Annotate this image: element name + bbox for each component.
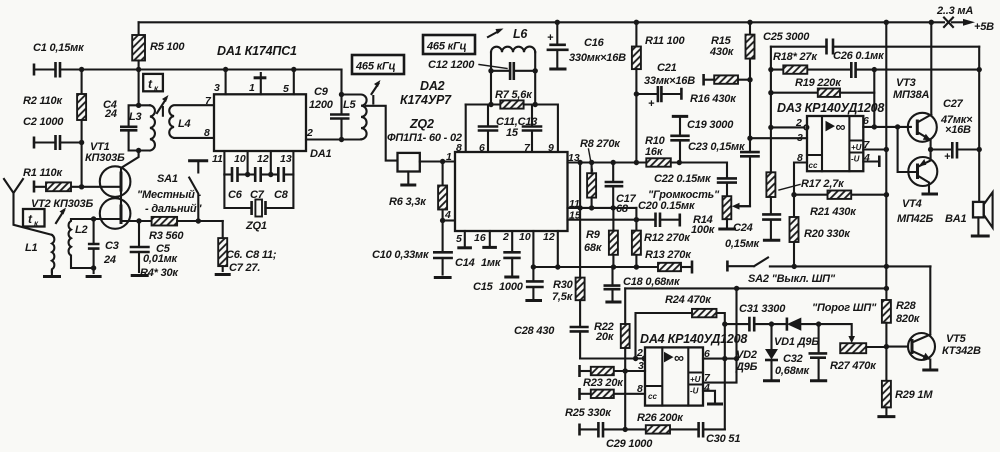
resistor R2 <box>77 94 86 120</box>
IC DA2 <box>455 152 568 231</box>
resistor R18 <box>768 67 773 72</box>
svg-text:465 кГц: 465 кГц <box>426 41 467 53</box>
capacitor C6 <box>224 173 232 175</box>
pin 8 stub DA2 <box>465 105 467 153</box>
resistor R22 <box>621 324 630 348</box>
potentiometer R14 <box>723 196 732 219</box>
svg-text:L2: L2 <box>75 224 88 236</box>
capacitor C4 <box>120 127 137 131</box>
svg-text:R13 270к: R13 270к <box>645 249 692 261</box>
wire bottom rail <box>533 266 658 268</box>
svg-text:C9: C9 <box>314 86 329 98</box>
svg-text:4: 4 <box>703 382 710 394</box>
svg-text:16к: 16к <box>645 146 664 158</box>
svg-text:-U: -U <box>690 387 699 396</box>
svg-text:15: 15 <box>506 127 519 139</box>
svg-text:100к: 100к <box>691 224 716 236</box>
svg-text:13: 13 <box>280 153 292 165</box>
capacitor C12 <box>510 62 514 80</box>
tank L6 with C12 <box>491 52 535 71</box>
svg-text:C6. C8 11;: C6. C8 11; <box>226 249 277 261</box>
svg-text:68к: 68к <box>584 242 603 254</box>
svg-text:C10 0,33мк: C10 0,33мк <box>372 249 430 261</box>
DA1 bottom pin stubs 11 10 12 13 <box>224 151 293 175</box>
svg-text:24: 24 <box>103 254 116 266</box>
svg-text:R20 330к: R20 330к <box>804 228 851 240</box>
svg-text:cc: cc <box>809 161 818 170</box>
capacitor C7 <box>245 172 250 177</box>
svg-text:R25 330к: R25 330к <box>565 407 612 419</box>
DA2 pin 12 <box>557 231 559 267</box>
pointer C12 <box>479 65 507 69</box>
svg-text:VT3: VT3 <box>896 77 916 89</box>
svg-text:C32: C32 <box>783 353 803 365</box>
wire input rail y69.5 <box>34 68 342 70</box>
svg-text:К174УР7: К174УР7 <box>400 93 452 107</box>
svg-text:C8: C8 <box>274 189 289 201</box>
tank L3 with C4 <box>129 105 150 150</box>
capacitor C19 <box>672 115 688 118</box>
svg-text:L5: L5 <box>343 99 357 111</box>
switch SA1 <box>196 218 201 223</box>
resistor R7 <box>500 100 523 108</box>
svg-text:∞: ∞ <box>836 119 846 135</box>
wire to R1 <box>81 143 83 187</box>
ground DA4 pin4 <box>703 391 715 403</box>
resistor R6 <box>442 162 444 186</box>
wire DA3 pin6 <box>863 126 911 128</box>
svg-text:C14: C14 <box>455 257 475 269</box>
svg-text:C24: C24 <box>733 222 753 234</box>
svg-text:R8 270к: R8 270к <box>580 138 621 150</box>
capacitor C26 <box>851 62 855 78</box>
svg-text:8: 8 <box>797 152 803 164</box>
wire ZQ2 out <box>420 160 455 162</box>
resistor R10 <box>646 158 671 166</box>
IC DA4 <box>645 347 703 405</box>
IC DA3 <box>807 116 863 171</box>
svg-text:8: 8 <box>637 383 643 395</box>
svg-text:R27 470к: R27 470к <box>830 360 877 372</box>
svg-text:C28 430: C28 430 <box>514 325 555 337</box>
svg-text:КТ342В: КТ342В <box>942 345 981 357</box>
svg-text:C29 1000: C29 1000 <box>606 438 653 450</box>
svg-text:VT5: VT5 <box>946 333 967 345</box>
fk box 1 <box>143 74 163 91</box>
svg-text:КП303Б: КП303Б <box>85 152 125 164</box>
wire feedback to pin6 <box>873 70 875 93</box>
wire gate VT1 <box>82 186 119 188</box>
svg-text:R17 2,7к: R17 2,7к <box>801 178 845 190</box>
capacitor C27 electrolytic <box>952 142 957 159</box>
wire L6 tank to R7 line <box>491 71 535 105</box>
wire L3 feed <box>138 70 140 106</box>
node VT5 base <box>884 344 889 349</box>
capacitor C22 <box>717 178 737 182</box>
wire DA2 pin15 line <box>568 219 656 221</box>
pointer R17 <box>779 185 800 191</box>
capacitor C1 <box>56 62 61 78</box>
wire DA3 pin3 <box>750 137 807 139</box>
svg-text:VD2: VD2 <box>736 349 757 361</box>
svg-text:L4: L4 <box>178 118 191 130</box>
inductor L1 <box>52 235 54 272</box>
svg-text:R19 220к: R19 220к <box>795 77 842 89</box>
svg-text:C31 3300: C31 3300 <box>739 303 786 315</box>
svg-text:C2 1000: C2 1000 <box>23 116 64 128</box>
svg-text:R26 200к: R26 200к <box>637 412 684 424</box>
svg-text:820к: 820к <box>896 313 921 325</box>
svg-text:-U: -U <box>851 155 860 164</box>
antenna <box>4 179 52 235</box>
pin 1 common <box>260 73 262 94</box>
resistor R13 <box>658 263 681 271</box>
svg-text:1мк: 1мк <box>481 257 502 269</box>
resistor R11 <box>634 20 639 25</box>
node output <box>928 147 933 152</box>
wire DA2 pin13 line <box>568 163 728 179</box>
svg-text:4: 4 <box>863 152 870 164</box>
svg-text:33мк×16В: 33мк×16В <box>644 75 695 87</box>
svg-text:R12 270к: R12 270к <box>644 232 691 244</box>
capacitor C20 <box>656 213 680 228</box>
svg-text:C27: C27 <box>943 98 964 110</box>
capacitor C31 <box>722 321 727 326</box>
fk box 2 <box>23 209 45 227</box>
capacitor C9 <box>340 70 342 140</box>
resistor R29 <box>885 347 887 381</box>
svg-text:Д9Б: Д9Б <box>735 361 758 373</box>
transistor VT5 <box>908 333 935 360</box>
capacitor C29 <box>598 422 603 438</box>
wire feedback column x771 <box>770 47 772 128</box>
svg-text:R7 5,6к: R7 5,6к <box>495 89 533 101</box>
svg-text:2: 2 <box>795 117 802 129</box>
resistor R5 <box>138 22 140 35</box>
svg-text:3: 3 <box>797 132 803 144</box>
svg-text:ФП1П1- 60 - 02: ФП1П1- 60 - 02 <box>387 132 462 144</box>
input circle pin2 DA4 <box>643 356 648 361</box>
wire DA4 pin3 <box>614 370 645 372</box>
resistor R24 <box>636 313 725 429</box>
svg-text:C12 1200: C12 1200 <box>428 59 475 71</box>
svg-text:+: + <box>547 32 554 44</box>
svg-text:- дальний": - дальний" <box>145 203 202 215</box>
svg-text:C16: C16 <box>584 37 605 49</box>
svg-text:1200: 1200 <box>309 99 334 111</box>
svg-text:4: 4 <box>444 209 451 221</box>
capacitor C17 <box>612 163 614 208</box>
svg-text:R29 1М: R29 1М <box>895 389 933 401</box>
node R1 <box>79 184 84 189</box>
terminal DA3 pin4 <box>863 160 879 162</box>
svg-text:+: + <box>944 151 951 163</box>
tuning arrow L5 <box>372 84 379 104</box>
filter ZQ2 <box>398 153 420 172</box>
pin 5 <box>291 67 296 72</box>
svg-text:C22 0.15мк: C22 0.15мк <box>654 173 712 185</box>
capacitor C25 <box>771 46 979 48</box>
svg-text:6: 6 <box>863 115 869 127</box>
capacitor C30 <box>699 422 704 438</box>
svg-text:2: 2 <box>502 231 509 243</box>
pointer R8 <box>589 149 593 171</box>
svg-text:0,68мк: 0,68мк <box>775 365 811 377</box>
inductor L3 coil <box>150 105 155 150</box>
transistor VT1 <box>100 166 131 197</box>
svg-text:cc: cc <box>648 392 657 401</box>
inductor L5 <box>342 95 367 140</box>
inductor L4 <box>169 105 214 138</box>
svg-text:68: 68 <box>616 203 629 215</box>
wire R7 line <box>466 105 558 153</box>
svg-text:VD1 Д9Б: VD1 Д9Б <box>774 336 819 348</box>
svg-text:R28: R28 <box>896 300 917 312</box>
capacitor C5 <box>136 218 141 223</box>
resistor R1 <box>33 181 36 193</box>
svg-text:R21 430к: R21 430к <box>810 206 857 218</box>
ground L1 <box>43 275 61 278</box>
svg-text:24: 24 <box>104 108 117 120</box>
svg-text:20к: 20к <box>595 331 615 343</box>
wire right edge column <box>978 47 980 202</box>
svg-text:C20 0.15мк: C20 0.15мк <box>638 200 696 212</box>
svg-text:R6 3,3к: R6 3,3к <box>389 196 427 208</box>
svg-text:8: 8 <box>204 127 210 139</box>
ammeter break symbol <box>944 18 953 28</box>
resistor R16 <box>702 74 705 86</box>
node L5 top <box>339 92 344 97</box>
svg-text:DA2: DA2 <box>420 79 445 93</box>
pin 2 wire <box>306 138 361 140</box>
svg-text:2: 2 <box>636 347 643 359</box>
pin 4 wire DA2 <box>443 219 455 221</box>
capacitor C11 <box>487 105 489 153</box>
wire to DA4 pin 2 <box>580 357 643 359</box>
capacitor C16 electrolytic <box>556 22 558 44</box>
capacitor C8 <box>268 172 273 177</box>
DA2 bottom pin 5 <box>464 231 466 246</box>
wire DA3 pin7 <box>863 148 886 150</box>
svg-text:465 кГц: 465 кГц <box>355 61 396 73</box>
capacitor C28 <box>579 300 581 358</box>
svg-text:R9: R9 <box>586 229 601 241</box>
svg-text:2: 2 <box>306 127 313 139</box>
resistor R28 <box>885 288 887 300</box>
wire squelch line <box>625 287 886 289</box>
resistor R12 <box>635 208 637 267</box>
svg-text:R23 20к: R23 20к <box>583 377 624 389</box>
capacitor C23 <box>747 136 752 141</box>
svg-text:12: 12 <box>257 153 269 165</box>
svg-text:5: 5 <box>456 233 462 245</box>
svg-text:0,15мк: 0,15мк <box>725 238 761 250</box>
svg-text:∞: ∞ <box>674 350 684 366</box>
svg-text:"Местный -: "Местный - <box>137 189 202 201</box>
node C1/R2 <box>79 67 84 72</box>
svg-text:10: 10 <box>519 231 531 243</box>
svg-text:11: 11 <box>212 153 223 165</box>
transistor VT3 <box>908 113 937 142</box>
arrow to +5V <box>963 19 975 26</box>
svg-text:R30: R30 <box>553 279 574 291</box>
svg-text:SA2 "Выкл. ШП": SA2 "Выкл. ШП" <box>748 273 836 285</box>
inductor L2 <box>69 219 94 268</box>
potentiometer R27 <box>840 343 866 353</box>
svg-text:430к: 430к <box>709 46 735 58</box>
box 465 kHz left <box>352 55 404 74</box>
tuning arrow L2 <box>56 211 64 224</box>
tuning arrow L6 <box>488 31 499 37</box>
transistor VT2 <box>100 198 131 229</box>
resistor R9 <box>612 208 614 267</box>
pin 3 <box>223 67 228 72</box>
node C2 <box>79 140 84 145</box>
box 465 kHz right <box>423 35 475 54</box>
svg-text:1: 1 <box>446 151 452 163</box>
speaker BA1 <box>973 202 984 218</box>
svg-text:+U: +U <box>851 143 862 152</box>
svg-text:DA1 К174ПС1: DA1 К174ПС1 <box>217 44 297 58</box>
svg-text:3: 3 <box>214 82 220 94</box>
svg-text:6: 6 <box>704 348 710 360</box>
capacitor C21 electrolytic <box>634 91 639 96</box>
wire L2/C3 to VT2 <box>71 218 119 220</box>
wire DA3 pin2 <box>768 125 773 130</box>
wire top supply bus <box>139 21 944 23</box>
svg-text:1000: 1000 <box>499 281 524 293</box>
resistor R23 <box>578 365 581 377</box>
svg-text:C30 51: C30 51 <box>706 433 740 445</box>
svg-text:×16В: ×16В <box>945 124 971 136</box>
svg-text:330мк×16В: 330мк×16В <box>569 52 626 64</box>
svg-text:C23 0,15мк: C23 0,15мк <box>688 141 746 153</box>
svg-text:"Порог ШП": "Порог ШП" <box>812 302 877 314</box>
resistor R26 <box>646 425 670 433</box>
wire R2 column <box>81 70 83 143</box>
wire DA4 pin7 supply <box>703 288 737 382</box>
resistor R3 <box>152 217 178 226</box>
svg-text:C21: C21 <box>657 62 677 74</box>
resistor R8 <box>587 173 596 197</box>
svg-text:DA3 КР140УД1208: DA3 КР140УД1208 <box>777 101 884 115</box>
diode VD1 <box>769 321 774 326</box>
resistor R25 <box>578 388 581 400</box>
capacitor C3 <box>91 216 96 221</box>
svg-text:DA1: DA1 <box>310 148 331 160</box>
svg-text:16: 16 <box>474 232 486 244</box>
wire DA3 pin8 <box>794 163 807 195</box>
diode VD2 <box>770 324 772 349</box>
capacitor C2 <box>33 137 36 149</box>
svg-text:SA1: SA1 <box>157 173 178 185</box>
tuning arrow L3/L4 <box>157 99 166 113</box>
crystal ZQ1 <box>224 175 293 209</box>
wire DA4 pin6 <box>703 358 737 360</box>
svg-text:VT2 КП303Б: VT2 КП303Б <box>31 198 93 210</box>
svg-text:VT4: VT4 <box>902 198 922 210</box>
svg-text:C19 3000: C19 3000 <box>687 119 734 131</box>
svg-text:R2 110к: R2 110к <box>23 95 63 107</box>
svg-text:МП38А: МП38А <box>893 89 930 101</box>
capacitor C14 on pin 2 <box>511 231 513 275</box>
switch SA2 <box>726 261 729 272</box>
svg-text:0,01мк: 0,01мк <box>143 253 179 265</box>
svg-text:C6: C6 <box>228 189 243 201</box>
DA2 bottom pin 16 <box>489 231 491 246</box>
DA2 pin 10 <box>532 231 534 267</box>
resistor R21 <box>791 192 796 197</box>
svg-text:C3: C3 <box>105 240 119 252</box>
resistor R20 <box>793 195 795 217</box>
svg-text:R3 560: R3 560 <box>149 230 184 242</box>
capacitor C24 <box>762 214 781 219</box>
wire supply column x886 <box>884 20 889 25</box>
svg-text:BA1: BA1 <box>945 213 966 225</box>
svg-text:R24 470к: R24 470к <box>665 294 712 306</box>
wire threshold line to R27 <box>819 324 852 337</box>
wire DA4 pin8 <box>614 393 645 395</box>
svg-text:C25 3000: C25 3000 <box>763 31 810 43</box>
svg-text:C1 0,15мк: C1 0,15мк <box>33 42 85 54</box>
svg-text:1: 1 <box>249 82 255 94</box>
svg-text:L6: L6 <box>513 27 528 41</box>
svg-text:DA4 КР140УД1208: DA4 КР140УД1208 <box>640 332 747 346</box>
svg-text:+5В: +5В <box>974 21 994 33</box>
svg-text:R18* 27к: R18* 27к <box>773 51 818 63</box>
svg-text:R16 430к: R16 430к <box>690 93 737 105</box>
inductor L6 coil <box>491 47 535 53</box>
svg-text:C7 27.: C7 27. <box>229 262 260 274</box>
resistor R30 <box>579 163 581 278</box>
ground ZQ2 <box>407 172 409 185</box>
resistor R15 <box>747 20 752 25</box>
svg-text:L3: L3 <box>129 111 142 123</box>
wire C29 line <box>578 424 581 436</box>
svg-text:2..3 мА: 2..3 мА <box>936 5 973 17</box>
svg-text:R1 110к: R1 110к <box>23 167 63 179</box>
svg-text:C18 0,68мк: C18 0,68мк <box>623 276 681 288</box>
svg-text:C26 0.1мк: C26 0.1мк <box>833 50 885 62</box>
terminal tick C1 left <box>33 64 36 76</box>
wire L5 tap to ZQ2 <box>366 106 398 161</box>
svg-text:+: + <box>648 98 655 110</box>
svg-text:ZQ1: ZQ1 <box>245 220 267 232</box>
svg-text:R5 100: R5 100 <box>150 41 185 53</box>
capacitor C10 <box>442 221 444 253</box>
svg-text:10: 10 <box>234 153 246 165</box>
capacitor C15 <box>532 267 534 299</box>
svg-text:R4* 30к: R4* 30к <box>140 267 179 279</box>
svg-text:C15: C15 <box>473 281 494 293</box>
svg-text:ZQ2: ZQ2 <box>409 117 434 131</box>
capacitor C13 <box>531 105 533 153</box>
svg-text:L1: L1 <box>25 242 38 254</box>
svg-text:7,5к: 7,5к <box>552 291 574 303</box>
capacitor C18 <box>611 264 616 269</box>
svg-text:МП42Б: МП42Б <box>897 213 934 225</box>
resistor R19 <box>768 90 773 95</box>
capacitor C32 <box>816 321 821 326</box>
resistor R4 <box>222 221 224 238</box>
wire DA2 pin11 line <box>568 207 637 209</box>
svg-text:5: 5 <box>283 83 289 95</box>
svg-text:"Громкость": "Громкость" <box>648 189 720 201</box>
svg-text:+U: +U <box>690 375 701 384</box>
svg-text:R11 100: R11 100 <box>645 35 685 47</box>
IC DA1 <box>214 94 306 151</box>
resistor R17 <box>770 127 772 172</box>
